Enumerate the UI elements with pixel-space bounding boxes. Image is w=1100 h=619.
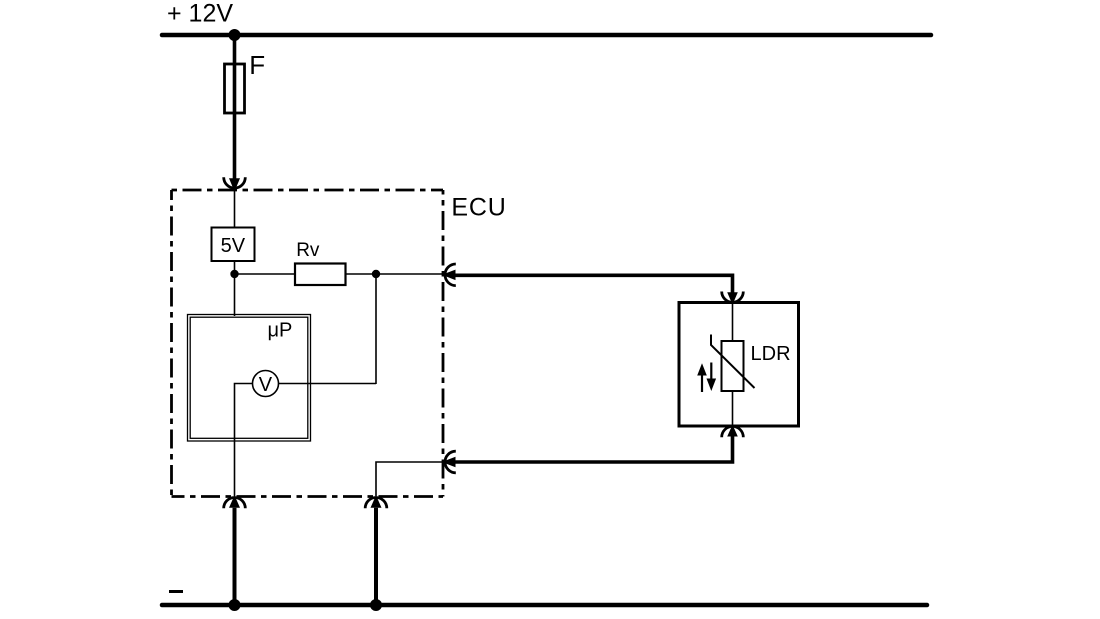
up arrow (light indicator) — [697, 363, 707, 392]
ECU boundary (dash-dot frame) — [172, 190, 444, 497]
microprocessor uP (double border box) — [188, 315, 311, 442]
svg-text:F: F — [249, 50, 265, 80]
wire node to Rv — [235, 273, 296, 275]
photoresistor LDR body — [722, 341, 744, 391]
wire voltmeter right leg — [279, 383, 377, 385]
svg-text:μP: μP — [268, 320, 293, 342]
wire 5V node down to microprocessor — [234, 274, 236, 316]
wire uP ground to ground rail — [233, 508, 237, 605]
node on ground rail right — [370, 599, 382, 611]
svg-text:V: V — [259, 374, 273, 396]
svg-text:LDR: LDR — [751, 343, 791, 365]
wire 5V output down to node — [234, 261, 236, 274]
wire from rail through fuse to ECU connector — [233, 35, 237, 179]
connector plug into ECU right edge (upper, signal) — [442, 264, 456, 286]
node right of Rv — [372, 270, 380, 278]
wire photoresistor to LDR box bottom — [732, 391, 734, 425]
wire connector to inner node — [376, 462, 442, 496]
voltmeter V — [253, 371, 279, 397]
svg-text:ECU: ECU — [451, 194, 506, 222]
connector plug into ECU right edge (lower, return) — [442, 451, 456, 473]
svg-text:Rv: Rv — [296, 240, 320, 261]
wire node to right-edge connector — [376, 273, 442, 275]
wire LDR to ECU (bottom) — [454, 437, 733, 463]
svg-text:5V: 5V — [221, 235, 246, 257]
wire connector to 5V regulator — [234, 190, 236, 228]
label LDR — [751, 343, 791, 365]
junction node on +12V rail — [229, 29, 241, 41]
ground rail — [162, 603, 927, 608]
wire ECU return to ground rail — [374, 508, 378, 605]
label +12V — [167, 0, 233, 28]
connector plug into LDR box bottom — [722, 425, 744, 438]
voltage regulator 5V — [212, 228, 255, 262]
label F — [249, 50, 265, 80]
LDR sensor box — [679, 303, 799, 427]
label Rv — [296, 240, 320, 261]
node at 5V output — [230, 270, 238, 278]
node on ground rail left — [229, 599, 241, 611]
connector plug into LDR box top — [722, 292, 744, 305]
label uP — [268, 320, 293, 342]
label ECU — [451, 194, 506, 222]
wire LDR box top to photoresistor — [732, 304, 734, 341]
wire ECU to LDR (top) — [454, 275, 733, 292]
+12V supply rail — [162, 33, 931, 38]
wire voltmeter left leg — [235, 384, 253, 497]
connector plug at ECU bottom edge (uP ground) — [224, 495, 246, 508]
wire node down to voltmeter line — [375, 274, 377, 384]
down arrow (light indicator) — [707, 363, 717, 392]
connector plug at ECU bottom edge (return) — [365, 495, 387, 508]
fuse F — [225, 64, 245, 113]
connector plug into ECU top (arrow + socket arc) — [224, 177, 246, 191]
wire Rv to node — [346, 273, 377, 275]
resistor Rv — [295, 264, 346, 286]
svg-text:+ 12V: + 12V — [167, 0, 233, 28]
photoresistor diagonal stroke with tick — [711, 335, 755, 389]
label minus — [169, 590, 183, 593]
